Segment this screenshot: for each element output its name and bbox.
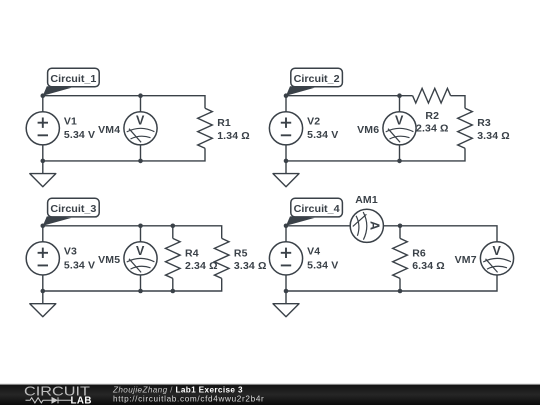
svg-text:V1: V1 (64, 115, 77, 127)
wire (399, 145, 401, 161)
junction dot (138, 224, 143, 229)
svg-text:3.34 Ω: 3.34 Ω (477, 130, 510, 142)
svg-text:Circuit_2: Circuit_2 (294, 74, 340, 85)
svg-text:5.34 V: 5.34 V (307, 129, 338, 141)
wire (140, 96, 142, 112)
wire (285, 275, 287, 291)
junction dot (41, 289, 46, 294)
wire (140, 275, 142, 291)
resistor R5 (214, 238, 229, 278)
svg-text:V4: V4 (307, 245, 320, 257)
voltmeter VM7 body (480, 242, 513, 275)
wire (42, 96, 44, 112)
svg-text:R5: R5 (234, 247, 248, 259)
junction dot (397, 159, 402, 164)
label callout Circuit_4 (286, 198, 342, 226)
junction dot (171, 224, 176, 229)
wire (43, 148, 205, 161)
junction dot (138, 289, 143, 294)
voltmeter VM4 body (124, 112, 157, 145)
wire (140, 145, 142, 161)
junction dot (398, 289, 403, 294)
wire (43, 226, 222, 239)
svg-text:R4: R4 (185, 247, 199, 259)
wire (286, 275, 497, 291)
wire (285, 145, 287, 161)
resistor R1 (198, 108, 213, 148)
voltage source V1 body (26, 112, 59, 145)
svg-text:VM7: VM7 (455, 254, 477, 266)
wire (451, 96, 465, 109)
wire (172, 278, 174, 291)
ground (30, 291, 56, 317)
V4 labels (307, 245, 338, 271)
wire (399, 96, 401, 112)
R2 labels (416, 110, 449, 135)
svg-text:R3: R3 (477, 117, 491, 129)
voltage source V2 body (269, 112, 302, 145)
label callout Circuit_3 (43, 198, 99, 226)
wire (286, 225, 350, 227)
voltmeter VM5 body (124, 242, 157, 275)
svg-text:ZhoujieZhang / Lab1 Exercise 3: ZhoujieZhang / Lab1 Exercise 3 (112, 385, 243, 394)
resistor R3 (458, 108, 473, 148)
svg-text:A: A (367, 221, 381, 230)
svg-text:V: V (136, 114, 145, 128)
wire (172, 226, 174, 239)
ground (273, 291, 299, 317)
voltage source V4 body (269, 242, 302, 275)
svg-text:6.34 Ω: 6.34 Ω (412, 260, 445, 272)
ground (30, 161, 56, 187)
svg-text:V: V (136, 244, 145, 258)
svg-text:LAB: LAB (71, 395, 92, 405)
svg-text:2.34 Ω: 2.34 Ω (185, 260, 218, 272)
wire (42, 275, 44, 291)
resistor R6 (393, 238, 408, 278)
CircuitLab logo waveform (26, 397, 72, 403)
R6 labels (412, 247, 445, 272)
wire (399, 278, 401, 291)
wire (140, 226, 142, 242)
voltmeter VM6 body (383, 112, 416, 145)
svg-text:5.34 V: 5.34 V (64, 259, 95, 271)
junction dot (284, 159, 289, 164)
junction dot (284, 93, 289, 98)
ground (273, 161, 299, 187)
junction dot (397, 93, 402, 98)
svg-text:1.34 Ω: 1.34 Ω (217, 130, 250, 142)
label callout Circuit_1 (43, 68, 99, 96)
svg-text:2.34 Ω: 2.34 Ω (416, 123, 449, 135)
svg-text:5.34 V: 5.34 V (64, 129, 95, 141)
svg-text:VM6: VM6 (357, 124, 379, 136)
R4 labels (185, 247, 218, 272)
label callout Circuit_2 (286, 68, 342, 96)
svg-text:5.34 V: 5.34 V (307, 259, 338, 271)
wire (285, 226, 287, 242)
CircuitLab logo diode triangle (52, 397, 59, 404)
resistor R4 (166, 238, 181, 278)
footer bar (0, 384, 540, 405)
wire (286, 95, 413, 97)
wire (383, 226, 497, 242)
svg-text:R2: R2 (425, 110, 439, 122)
R3 labels (477, 117, 510, 142)
voltage source V3 body (26, 242, 59, 275)
R5 labels (234, 247, 267, 272)
svg-text:AM1: AM1 (355, 194, 378, 206)
svg-text:VM4: VM4 (98, 124, 120, 136)
wire (43, 278, 222, 291)
wire (286, 148, 465, 161)
svg-text:R1: R1 (217, 117, 231, 129)
svg-text:Circuit_3: Circuit_3 (50, 204, 96, 215)
wire (42, 226, 44, 242)
svg-text:V: V (395, 114, 404, 128)
svg-text:Circuit_1: Circuit_1 (50, 74, 96, 85)
wire (42, 145, 44, 161)
wire (399, 226, 401, 239)
junction dot (284, 224, 289, 229)
svg-text:Circuit_4: Circuit_4 (294, 204, 340, 215)
junction dot (398, 224, 403, 229)
svg-text:3.34 Ω: 3.34 Ω (234, 260, 267, 272)
V3 labels (64, 245, 95, 271)
junction dot (138, 93, 143, 98)
ammeter AM1 body (350, 209, 383, 242)
junction dot (41, 224, 46, 229)
junction dot (138, 159, 143, 164)
svg-text:R6: R6 (412, 247, 426, 259)
wire (43, 96, 205, 109)
resistor R2 (413, 88, 451, 103)
svg-text:http://circuitlab.com/cfd4wwu2: http://circuitlab.com/cfd4wwu2r2b4r (113, 395, 264, 404)
svg-text:V3: V3 (64, 245, 77, 257)
wire (285, 96, 287, 112)
junction dot (284, 289, 289, 294)
svg-text:V2: V2 (307, 115, 320, 127)
V2 labels (307, 115, 338, 141)
junction dot (41, 93, 46, 98)
junction dot (171, 289, 176, 294)
V1 labels (64, 115, 95, 141)
svg-text:V: V (493, 244, 502, 258)
R1 labels (217, 117, 250, 142)
junction dot (41, 159, 46, 164)
svg-text:VM5: VM5 (98, 254, 120, 266)
